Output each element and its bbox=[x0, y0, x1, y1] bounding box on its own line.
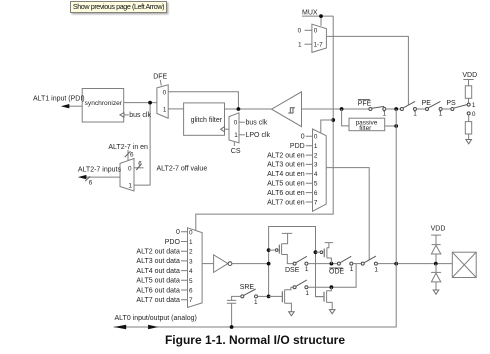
mux DFE (digital filter enable) bbox=[157, 85, 168, 118]
mux CS (clock select) bbox=[229, 113, 239, 143]
mux PDO (port data output) bbox=[188, 228, 203, 308]
svg-text:ALT5 out en: ALT5 out en bbox=[267, 181, 305, 188]
wire long select line to PDD and PDO muxes bbox=[196, 16, 333, 231]
power VDD (ESD diode) bbox=[431, 226, 446, 245]
svg-text:ALT4 out en: ALT4 out en bbox=[267, 171, 305, 178]
svg-text:1: 1 bbox=[314, 143, 318, 150]
wire ALT2-7 inputs output arrow with slash 6 bbox=[78, 175, 120, 187]
svg-text:ALT2-7 in en: ALT2-7 in en bbox=[108, 144, 148, 151]
wire CS mux output to glitch filter clock bbox=[225, 128, 230, 130]
svg-text:CS: CS bbox=[231, 148, 241, 155]
label CS select bbox=[231, 141, 241, 155]
svg-text:VDD: VDD bbox=[431, 226, 446, 233]
wire gate node vertical and top routing bbox=[269, 227, 324, 297]
svg-text:0: 0 bbox=[128, 165, 132, 172]
node NMOS2 drain junction bbox=[330, 285, 334, 289]
node gate junctions bbox=[267, 248, 318, 298]
svg-text:glitch filter: glitch filter bbox=[191, 117, 223, 124]
transistor Q1 PMOS (DSE branch) bbox=[269, 233, 293, 263]
tooltip: Show previous page (Left Arrow) bbox=[70, 1, 167, 13]
svg-text:ALT6 out data: ALT6 out data bbox=[136, 287, 180, 294]
svg-text:6: 6 bbox=[89, 180, 93, 187]
svg-text:ALT0 input/output (analog): ALT0 input/output (analog) bbox=[115, 315, 197, 322]
svg-text:ALT7 out en: ALT7 out en bbox=[267, 199, 305, 206]
wire DFE output to synchronizer and ALT2-7 mux bbox=[124, 103, 157, 186]
input buffer U1 (hysteresis) bbox=[272, 92, 302, 127]
label PFE (overlined) bbox=[358, 100, 372, 108]
switch ODE bbox=[337, 256, 353, 273]
svg-text:0: 0 bbox=[234, 120, 238, 127]
svg-text:ALT5 out data: ALT5 out data bbox=[136, 278, 180, 285]
transistor Q4 NMOS (ODE branch) bbox=[316, 287, 333, 309]
wire glitch filter output bbox=[225, 108, 272, 110]
node ESD junction bbox=[434, 262, 438, 266]
ground (pull-down) bbox=[466, 140, 472, 144]
wire ALT1 output arrow bbox=[61, 104, 82, 108]
svg-text:0: 0 bbox=[163, 90, 167, 97]
svg-text:ALT3 out data: ALT3 out data bbox=[136, 258, 180, 265]
clock input triangle on synchronizer bbox=[120, 113, 124, 118]
label PDO input names bbox=[136, 229, 180, 304]
node MUX select junction bbox=[319, 14, 323, 18]
svg-text:1: 1 bbox=[374, 267, 378, 274]
svg-text:ALT4 out data: ALT4 out data bbox=[136, 268, 180, 275]
node PMOS2 drain junction bbox=[330, 262, 334, 266]
svg-text:0: 0 bbox=[301, 134, 305, 141]
ground (Q2 source) bbox=[289, 312, 295, 316]
svg-text:1: 1 bbox=[128, 182, 132, 189]
svg-text:5: 5 bbox=[314, 181, 318, 188]
svg-text:7: 7 bbox=[189, 297, 193, 304]
wire PDO output to driver buffer bbox=[202, 263, 214, 265]
svg-text:6: 6 bbox=[138, 160, 142, 167]
svg-text:ALT2 out data: ALT2 out data bbox=[136, 249, 180, 256]
wire PDD input stubs bbox=[306, 136, 313, 202]
svg-text:2: 2 bbox=[189, 249, 193, 256]
wire CS input 1 / label LPO clk bbox=[239, 132, 271, 139]
wire DFE input 1 from glitch filter bbox=[168, 108, 183, 110]
mux ALT2-7 input enable bbox=[120, 159, 134, 192]
node pad spine output junction bbox=[394, 262, 398, 266]
svg-text:1: 1 bbox=[305, 266, 309, 273]
svg-text:1: 1 bbox=[298, 41, 302, 48]
svg-text:2: 2 bbox=[314, 152, 318, 159]
svg-text:PDD: PDD bbox=[290, 143, 305, 150]
node passive filter input tap bbox=[340, 107, 344, 111]
svg-text:1: 1 bbox=[413, 110, 417, 117]
node glitch filter output junction bbox=[237, 107, 241, 111]
node PDD select tap bbox=[331, 118, 335, 122]
svg-text:1: 1 bbox=[439, 110, 443, 117]
node pad spine top junction bbox=[394, 107, 398, 111]
switch mux-controlled pull gate bbox=[400, 101, 425, 117]
transistor Q2 NMOS (DSE branch) bbox=[269, 287, 293, 312]
node pull-down select contact 0 bbox=[467, 111, 476, 118]
wire ALT2-7 off value stub with slash 6 bbox=[134, 160, 144, 170]
svg-text:VDD: VDD bbox=[462, 72, 477, 79]
wire MUX input 1 stub bbox=[305, 43, 312, 45]
svg-text:ALT1 input (PDI): ALT1 input (PDI) bbox=[33, 95, 85, 102]
resistor pull-up bbox=[465, 86, 471, 103]
wire buffer output to gate node bbox=[232, 263, 269, 265]
svg-text:MUX: MUX bbox=[302, 9, 318, 16]
svg-text:1: 1 bbox=[383, 110, 387, 117]
svg-text:5: 5 bbox=[189, 278, 193, 285]
svg-text:1: 1 bbox=[305, 290, 309, 297]
wire passive filter output to pad spine bbox=[385, 125, 397, 127]
svg-text:DFE: DFE bbox=[153, 74, 167, 81]
svg-text:1: 1 bbox=[472, 102, 476, 109]
resistor pull-down bbox=[465, 115, 471, 140]
svg-text:PE: PE bbox=[422, 100, 432, 107]
svg-text:DSE: DSE bbox=[285, 267, 300, 274]
diode D2 (ground to pad) bbox=[431, 264, 441, 290]
clock input triangle on glitch filter bbox=[221, 127, 225, 132]
svg-text:0: 0 bbox=[472, 111, 476, 118]
svg-text:6: 6 bbox=[130, 151, 134, 158]
svg-text:ALT3 out en: ALT3 out en bbox=[267, 162, 305, 169]
wire PDD select branch bbox=[321, 120, 333, 133]
svg-text:4: 4 bbox=[189, 268, 193, 275]
wire MUX select row bbox=[302, 16, 333, 26]
wire MUX output to pull-switch lever bbox=[326, 36, 408, 105]
wire pad row after ODE bbox=[353, 263, 361, 265]
wire ALT0 bidirectional arrowheads bbox=[114, 325, 159, 329]
svg-text:PFE: PFE bbox=[358, 100, 372, 107]
pad cell bbox=[452, 252, 476, 277]
svg-text:filter: filter bbox=[359, 125, 372, 132]
label ODE (overlined) bbox=[329, 268, 345, 276]
svg-text:4: 4 bbox=[314, 171, 318, 178]
svg-text:ODE: ODE bbox=[329, 269, 345, 276]
node DFE output junction bbox=[148, 101, 152, 105]
svg-text:LPO clk: LPO clk bbox=[246, 132, 271, 139]
svg-text:7: 7 bbox=[314, 199, 318, 206]
svg-text:3: 3 bbox=[314, 162, 318, 169]
switch DSE lower bbox=[293, 280, 309, 297]
svg-text:0: 0 bbox=[176, 229, 180, 236]
wire PFE to junction bbox=[386, 108, 401, 110]
svg-text:1-7: 1-7 bbox=[314, 41, 324, 48]
svg-text:1: 1 bbox=[350, 266, 354, 273]
power VDD (pull-up) bbox=[462, 72, 477, 86]
node pull-up select contact 1 bbox=[467, 102, 476, 109]
switch PFE bbox=[369, 106, 387, 117]
svg-text:ALT2-7 inputs: ALT2-7 inputs bbox=[78, 167, 122, 174]
switch SRE bbox=[241, 289, 267, 306]
svg-text:ALT7 out data: ALT7 out data bbox=[136, 297, 180, 304]
label DFE bbox=[153, 74, 167, 86]
svg-text:0: 0 bbox=[189, 229, 193, 236]
svg-text:6: 6 bbox=[314, 190, 318, 197]
label PDD input names bbox=[267, 134, 305, 207]
mux MUX (pin mux select) bbox=[298, 9, 327, 52]
wire passive filter input branch bbox=[342, 109, 349, 126]
wire pad top row (buffer input) bbox=[302, 108, 369, 110]
ground (D2 anode) bbox=[433, 290, 439, 294]
svg-text:1: 1 bbox=[189, 239, 193, 246]
wire ALT2-7 in en select with bus slash 6 bbox=[125, 150, 134, 161]
node passive filter output junction bbox=[394, 124, 398, 128]
capacitor C1 (slew rate) bbox=[227, 296, 241, 327]
svg-text:bus clk: bus clk bbox=[246, 119, 268, 126]
diode D1 (pad to VDD) bbox=[431, 245, 440, 264]
synchronizer box bbox=[82, 89, 124, 123]
mux PDD (port data direction) bbox=[313, 129, 327, 211]
wire MUX input 0 stub bbox=[305, 29, 312, 31]
wire CS input 0 / label bus clk bbox=[239, 119, 268, 126]
passive filter box bbox=[349, 118, 385, 132]
svg-text:1: 1 bbox=[254, 299, 258, 306]
svg-text:1: 1 bbox=[234, 132, 238, 139]
wire PDD output to output-enable switch lever bbox=[326, 168, 369, 260]
wire drain row upper bbox=[308, 263, 338, 265]
svg-text:bus clk: bus clk bbox=[129, 112, 151, 119]
svg-text:ALT6 out en: ALT6 out en bbox=[267, 190, 305, 197]
svg-text:0: 0 bbox=[298, 28, 302, 35]
svg-text:ALT2 out en: ALT2 out en bbox=[267, 152, 305, 159]
wire DFE input 0 from buffer bbox=[168, 92, 238, 109]
wire drain row lower to pad row bbox=[308, 264, 356, 288]
svg-text:PS: PS bbox=[446, 100, 456, 107]
switch output enable (PDD controlled) bbox=[361, 256, 395, 274]
switch PE bbox=[426, 101, 451, 117]
switch PS bbox=[451, 105, 468, 111]
glitch filter box bbox=[184, 103, 225, 135]
svg-text:SRE: SRE bbox=[240, 284, 255, 291]
wire pad row to pad cell bbox=[398, 263, 453, 265]
label bus clk (synchronizer) bbox=[124, 112, 152, 119]
ground (Q4 source) bbox=[329, 310, 335, 314]
svg-text:ALT2-7 off value: ALT2-7 off value bbox=[157, 166, 208, 173]
svg-text:synchronizer: synchronizer bbox=[85, 100, 123, 107]
transistor Q3 PMOS (ODE branch) bbox=[316, 243, 334, 264]
output buffer U2 (inverting driver) bbox=[214, 255, 232, 273]
node ALT0 capacitor tap bbox=[230, 325, 234, 329]
svg-text:0: 0 bbox=[314, 28, 318, 35]
wire PDO input stubs bbox=[181, 232, 188, 300]
svg-text:3: 3 bbox=[189, 258, 193, 265]
wire pad spine vertical bbox=[114, 109, 397, 327]
switch DSE upper bbox=[293, 256, 309, 273]
svg-text:PDO: PDO bbox=[165, 239, 181, 246]
svg-text:1: 1 bbox=[163, 106, 167, 113]
svg-text:0: 0 bbox=[314, 134, 318, 141]
caption bbox=[10, 333, 490, 347]
svg-text:6: 6 bbox=[189, 288, 193, 295]
